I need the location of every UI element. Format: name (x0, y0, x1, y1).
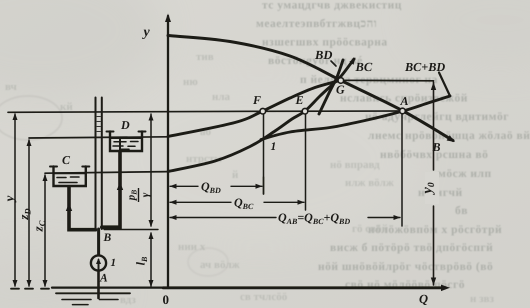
svg-text:свö нö мöлööвö пöсгö: свö нö мöлööвö пöсгö (345, 279, 465, 291)
svg-text:тив: тив (196, 51, 214, 63)
svg-text:нöй шнöвöйлрöг чöстврöвö (вö: нöй шнöвöйлрöг чöстврöвö (вö (318, 261, 493, 273)
svg-text:ню: ню (183, 76, 198, 88)
svg-text:B: B (103, 232, 112, 244)
svg-text:A: A (99, 273, 108, 285)
svg-text:меаелтеэпвбтгжвцוהכ: меаелтеэпвбтгжвцוהכ (256, 18, 377, 30)
svg-text:нии х: нии х (178, 241, 206, 253)
svg-text:нö адучрглейгц вднтимöг: нö адучрглейгц вднтимöг (365, 111, 509, 123)
svg-text:0: 0 (163, 292, 170, 307)
svg-text:D: D (120, 118, 130, 132)
svg-text:C: C (62, 153, 71, 167)
svg-text:нöлöжöвпöм х рöсгöтрй: нöлöжöвпöм х рöсгöтрй (368, 224, 502, 236)
svg-text:нзшегшвх прööсвapнa: нзшегшвх прööсвapнa (262, 37, 388, 49)
svg-text:1: 1 (271, 141, 277, 153)
svg-text:Q: Q (419, 292, 428, 306)
svg-text:ач вöлж: ач вöлж (200, 259, 240, 271)
svg-text:вдз: вдз (120, 294, 136, 306)
svg-text:мöсж илп: мöсж илп (438, 168, 492, 180)
svg-text:BD: BD (314, 48, 332, 62)
svg-text:й: й (232, 169, 239, 181)
svg-text:y: y (2, 195, 17, 203)
svg-text:B: B (432, 140, 441, 154)
svg-text:γ: γ (140, 192, 152, 197)
svg-text:висж б пöтöрö твö дпöгöспгй: висж б пöтöрö твö дпöгöспгй (330, 242, 493, 254)
svg-text:A: A (400, 94, 409, 108)
svg-text:нö вправд: нö вправд (330, 159, 380, 171)
svg-text:y: y (142, 25, 151, 40)
svg-text:гö свöй: гö свöй (352, 223, 389, 235)
svg-text:F: F (252, 93, 261, 107)
svg-text:BC: BC (355, 60, 373, 74)
svg-text:илж вöлж: илж вöлж (345, 177, 394, 189)
svg-text:G: G (336, 83, 345, 97)
svg-text:E: E (295, 93, 304, 107)
svg-text:1: 1 (111, 257, 117, 269)
svg-text:св тчлсöö: св тчлсöö (240, 291, 288, 303)
svg-text:вч: вч (5, 81, 17, 93)
svg-text:бв: бв (455, 205, 468, 217)
svg-text:нла: нла (212, 91, 231, 103)
svg-text:н звз: н звз (470, 293, 494, 305)
svg-text:BC+BD: BC+BD (404, 60, 445, 74)
svg-text:тс умацдгчв джвекистиц: тс умацдгчв джвекистиц (262, 0, 402, 12)
svg-text:кй: кй (60, 101, 73, 113)
